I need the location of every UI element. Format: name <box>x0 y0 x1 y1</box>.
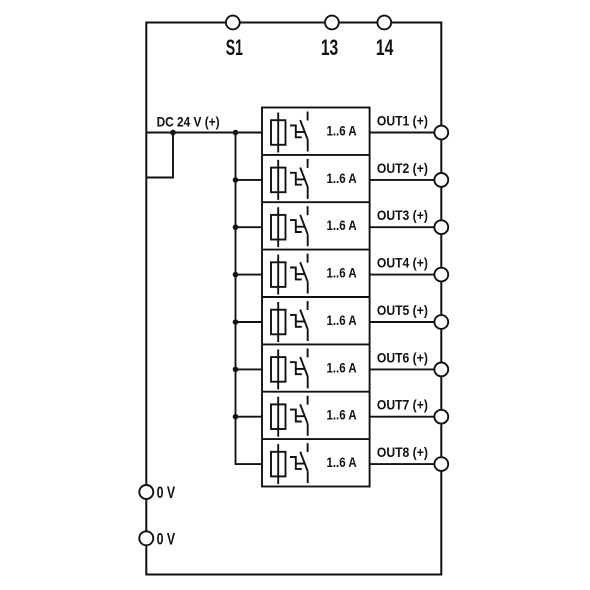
fuse F2 (electronic fuse element, channel 2) <box>277 160 279 200</box>
svg-text:S1: S1 <box>226 35 243 60</box>
trip-release linkage of channel 5 switch <box>290 315 302 327</box>
fuse F6 (electronic fuse element, channel 6) <box>277 349 279 389</box>
switch S2 (normally-open electronic switch, channel 2) <box>307 159 309 168</box>
junction dot on bus at channel 7 <box>233 414 239 420</box>
svg-text:OUT7 (+): OUT7 (+) <box>377 397 428 413</box>
terminal OUT5 (+) <box>434 315 448 329</box>
wire outer border of module <box>146 23 441 575</box>
switch S1 (normally-open electronic switch, channel 1) <box>307 112 309 121</box>
wire channel 6 input from bus <box>236 368 263 370</box>
svg-text:OUT1 (+): OUT1 (+) <box>377 113 428 129</box>
svg-text:1..6 A: 1..6 A <box>327 454 357 470</box>
terminal OUT4 (+) <box>434 268 448 282</box>
junction dot on bus at channel 2 <box>233 177 239 183</box>
wire separator between channel 4 and 5 <box>262 296 370 298</box>
junction dot on bus at channel 5 <box>233 319 239 325</box>
svg-text:1..6 A: 1..6 A <box>327 122 357 138</box>
svg-text:1..6 A: 1..6 A <box>327 359 357 375</box>
terminal OUT3 (+) <box>434 220 448 234</box>
wire separator between channel 6 and 7 <box>262 391 370 393</box>
wire channel 6 output to terminal OUT6 <box>370 368 442 370</box>
block channel column outline <box>262 108 370 487</box>
wire channel 4 input from bus <box>236 274 263 276</box>
terminal OUT2 (+) <box>434 173 448 187</box>
svg-text:OUT4 (+): OUT4 (+) <box>377 255 428 271</box>
svg-text:0 V: 0 V <box>157 531 176 549</box>
terminal S1 <box>226 16 240 30</box>
svg-text:14: 14 <box>376 36 394 60</box>
svg-text:1..6 A: 1..6 A <box>327 217 357 233</box>
wire separator between channel 1 and 2 <box>262 154 370 156</box>
wire channel 2 output to terminal OUT2 <box>370 179 442 181</box>
fuse F3 (electronic fuse element, channel 3) <box>277 207 279 247</box>
wire channel 7 output to terminal OUT7 <box>370 416 442 418</box>
junction dot on DC 24 V wire at stub <box>170 130 176 136</box>
wire separator between channel 7 and 8 <box>262 438 370 440</box>
terminal 0 V #1 <box>139 485 153 499</box>
svg-text:DC 24 V (+): DC 24 V (+) <box>157 114 220 130</box>
trip-release linkage of channel 3 switch <box>290 220 302 232</box>
wire channel 8 output to terminal OUT8 <box>370 463 442 465</box>
trip-release linkage of channel 2 switch <box>290 173 302 185</box>
terminal 0 V #2 <box>139 531 153 545</box>
terminal 13 <box>325 16 339 30</box>
fuse F5 (electronic fuse element, channel 5) <box>277 302 279 342</box>
trip-release linkage of channel 8 switch <box>290 457 302 469</box>
wire channel 1 output to terminal OUT1 <box>370 132 442 134</box>
svg-text:1..6 A: 1..6 A <box>327 407 357 423</box>
switch S8 (normally-open electronic switch, channel 8) <box>307 443 309 452</box>
wire separator between channel 5 and 6 <box>262 343 370 345</box>
wire channel 4 output to terminal OUT4 <box>370 274 442 276</box>
svg-text:1..6 A: 1..6 A <box>327 170 357 186</box>
svg-text:13: 13 <box>321 36 338 60</box>
terminal OUT6 (+) <box>434 363 448 377</box>
svg-text:1..6 A: 1..6 A <box>327 312 357 328</box>
svg-text:OUT6 (+): OUT6 (+) <box>377 350 428 366</box>
terminal OUT8 (+) <box>434 457 448 471</box>
wire stub loop to left rail <box>146 133 173 178</box>
terminal OUT1 (+) <box>434 126 448 140</box>
wire DC 24 V (+) from left rail to channel 1 input <box>146 132 262 134</box>
switch S7 (normally-open electronic switch, channel 7) <box>307 396 309 405</box>
svg-text:0 V: 0 V <box>157 484 176 502</box>
wire channel 2 input from bus <box>236 179 263 181</box>
junction dot on bus at channel 6 <box>233 367 239 373</box>
fuse F4 (electronic fuse element, channel 4) <box>277 255 279 295</box>
fuse F7 (electronic fuse element, channel 7) <box>277 397 279 437</box>
wire channel 7 input from bus <box>236 416 263 418</box>
trip-release linkage of channel 4 switch <box>290 268 302 280</box>
trip-release linkage of channel 7 switch <box>290 410 302 422</box>
svg-text:OUT5 (+): OUT5 (+) <box>377 302 428 318</box>
fuse F1 (electronic fuse element, channel 1) <box>277 113 279 153</box>
switch S3 (normally-open electronic switch, channel 3) <box>307 206 309 215</box>
switch S4 (normally-open electronic switch, channel 4) <box>307 254 309 263</box>
wire channel 5 output to terminal OUT5 <box>370 321 442 323</box>
trip-release linkage of channel 6 switch <box>290 362 302 374</box>
wire channel 3 input from bus <box>236 226 263 228</box>
terminal OUT7 (+) <box>434 410 448 424</box>
junction dot on bus at channel 4 <box>233 272 239 278</box>
wire channel 5 input from bus <box>236 321 263 323</box>
svg-text:OUT2 (+): OUT2 (+) <box>377 160 428 176</box>
terminal 14 <box>377 16 391 30</box>
wire separator between channel 3 and 4 <box>262 249 370 251</box>
svg-text:OUT8 (+): OUT8 (+) <box>377 444 428 460</box>
svg-text:1..6 A: 1..6 A <box>327 265 357 281</box>
svg-text:OUT3 (+): OUT3 (+) <box>377 207 428 223</box>
junction dot on DC 24 V wire at distribution bus <box>233 130 239 136</box>
wire channel 3 output to terminal OUT3 <box>370 226 442 228</box>
junction dot on bus at channel 3 <box>233 224 239 230</box>
trip-release linkage of channel 1 switch <box>290 125 302 137</box>
wire separator between channel 2 and 3 <box>262 201 370 203</box>
switch S6 (normally-open electronic switch, channel 6) <box>307 348 309 357</box>
fuse F8 (electronic fuse element, channel 8) <box>277 444 279 484</box>
switch S5 (normally-open electronic switch, channel 5) <box>307 301 309 310</box>
wire vertical distribution bus (+24 V) feeding all channels <box>236 133 263 465</box>
